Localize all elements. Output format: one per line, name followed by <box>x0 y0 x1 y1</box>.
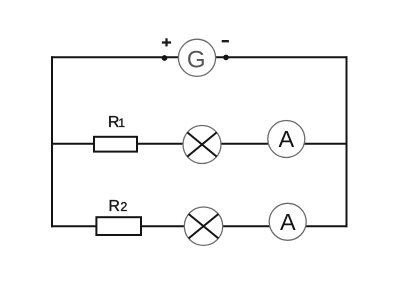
lamp X2 (branch 2) <box>184 207 222 245</box>
svg-text:R: R <box>108 198 120 215</box>
resistor R2 <box>96 217 141 235</box>
galvanometer U1 "G" <box>178 39 215 76</box>
wire top rail <box>51 56 348 58</box>
label R1 <box>108 114 126 131</box>
svg-text:1: 1 <box>118 116 125 130</box>
polarity label + <box>162 38 171 46</box>
svg-text:G: G <box>187 46 206 73</box>
svg-text:A: A <box>279 126 295 152</box>
ammeter A1 (branch 1) <box>268 121 305 158</box>
ammeter A2 (branch 2) <box>269 203 306 240</box>
node dot at - terminal <box>223 55 229 61</box>
svg-text:2: 2 <box>120 200 127 214</box>
label R2 <box>108 198 127 215</box>
svg-text:A: A <box>280 209 296 235</box>
wire right rail <box>346 56 348 227</box>
wire left rail <box>51 56 53 227</box>
node dot at + terminal <box>162 55 168 61</box>
wire branch 1 (R1 row) <box>51 143 348 145</box>
wire branch 2 (R2 row) <box>51 225 348 227</box>
resistor R1 <box>94 137 137 152</box>
lamp X1 (branch 1) <box>183 126 221 164</box>
polarity label - <box>222 40 229 42</box>
